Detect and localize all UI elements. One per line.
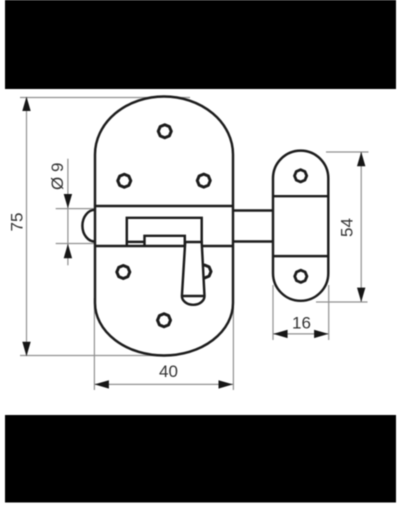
svg-text:Ø 9: Ø 9 xyxy=(48,163,67,190)
svg-text:16: 16 xyxy=(292,313,311,332)
svg-text:54: 54 xyxy=(338,218,357,237)
svg-text:75: 75 xyxy=(7,213,26,232)
svg-text:40: 40 xyxy=(159,362,178,381)
